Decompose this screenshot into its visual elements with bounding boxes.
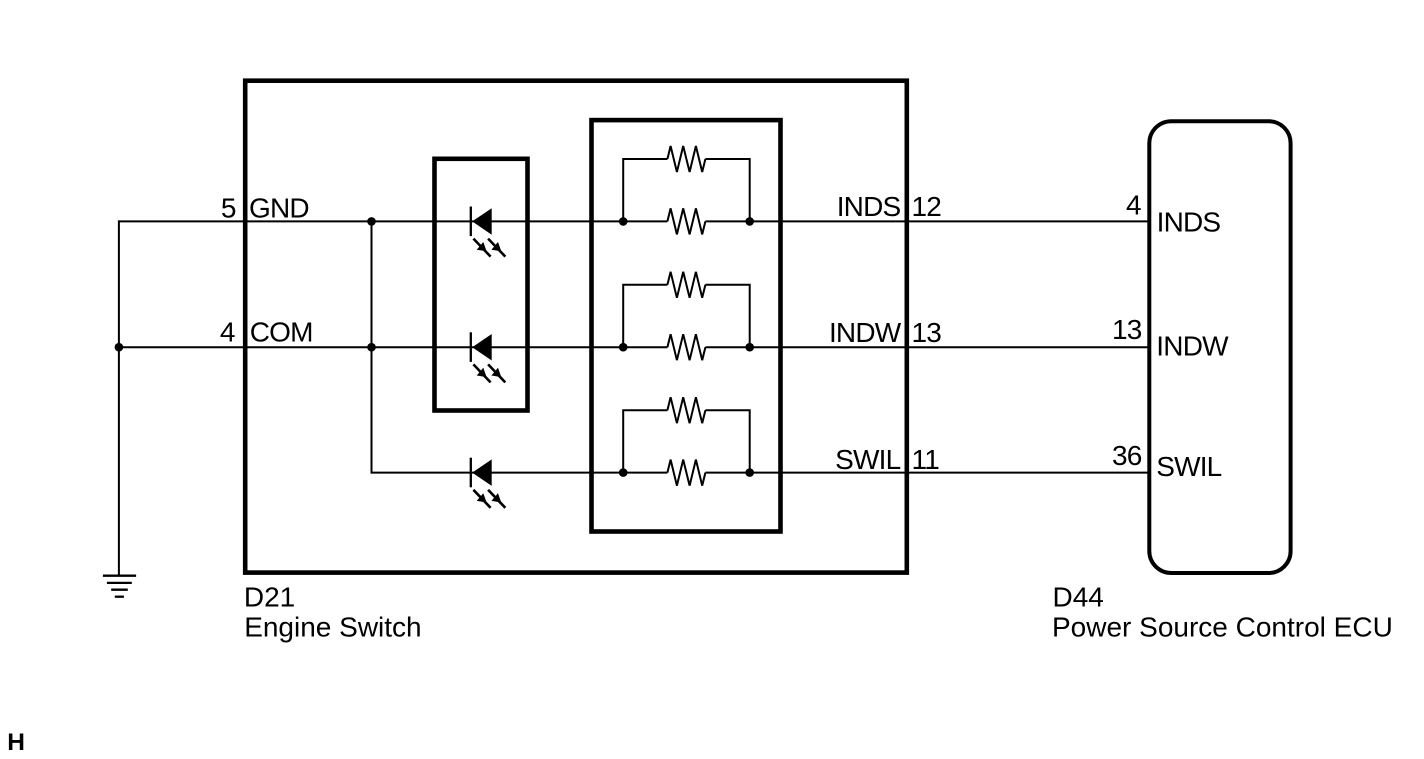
LED D1 emission arrow 2	[488, 239, 505, 257]
R2 upper resistor	[667, 272, 705, 298]
R2 lower resistor	[667, 334, 705, 360]
svg-text:11: 11	[912, 444, 940, 475]
svg-text:36: 36	[1112, 440, 1142, 471]
svg-text:4: 4	[1126, 190, 1141, 221]
wire: COM net horizontal (pin 4 row)	[119, 346, 668, 348]
LED D2 cathode bar	[470, 332, 472, 362]
R1 bypass loop wire	[623, 159, 667, 221]
R2 left junction	[619, 343, 628, 352]
svg-text:D21: D21	[244, 582, 295, 613]
LED D2 emission arrow 1	[473, 364, 490, 382]
R1 lower resistor	[667, 208, 705, 234]
connector D44 Power Source Control ECU	[1149, 121, 1290, 573]
LED D2 emission arrow 2	[488, 364, 505, 382]
LED D3 emission arrow 1	[473, 490, 490, 508]
R1 right junction	[745, 217, 754, 226]
R3 left junction	[619, 468, 628, 477]
svg-text:GND: GND	[249, 192, 309, 223]
node: GND row tee on common vertical	[367, 217, 376, 226]
svg-text:INDW: INDW	[829, 317, 902, 348]
inner box: resistor block	[592, 120, 781, 531]
svg-text:D44: D44	[1053, 582, 1104, 613]
wire: GND net horizontal (pin 5 row)	[119, 220, 668, 222]
svg-text:COM: COM	[250, 317, 313, 348]
svg-text:INDS: INDS	[1157, 207, 1221, 238]
svg-text:5: 5	[221, 192, 236, 223]
R1 upper resistor	[667, 146, 705, 172]
R1 left junction	[619, 217, 628, 226]
svg-text:INDW: INDW	[1156, 331, 1229, 362]
svg-text:13: 13	[1112, 314, 1142, 345]
svg-text:INDS: INDS	[837, 191, 901, 222]
node: COM row tee on common vertical	[367, 343, 376, 352]
inner box: illumination LED block	[435, 159, 528, 411]
wire: common vertical inside switch	[371, 220, 373, 473]
LED D1 cathode bar	[470, 207, 472, 237]
R3 right junction	[745, 468, 754, 477]
LED D3 cathode bar	[470, 458, 472, 488]
svg-text:4: 4	[220, 317, 235, 348]
svg-text:Power Source Control ECU: Power Source Control ECU	[1052, 611, 1393, 642]
LED D2 triangle (anode, pointing left)	[472, 334, 492, 361]
LED D3 triangle (anode, pointing left)	[472, 459, 492, 486]
wire: left vertical to ground	[118, 220, 120, 575]
LED D1 emission arrow 1	[473, 239, 490, 257]
component box D21 Engine Switch	[245, 81, 907, 573]
R3 upper resistor	[667, 397, 705, 423]
svg-text:SWIL: SWIL	[1156, 451, 1221, 482]
svg-text:Engine Switch: Engine Switch	[244, 611, 421, 642]
svg-text:12: 12	[912, 191, 942, 222]
svg-text:13: 13	[912, 317, 942, 348]
node: GND/COM tee on left vertical	[115, 343, 124, 352]
R3 lower resistor	[667, 460, 705, 486]
LED D3 emission arrow 2	[488, 490, 505, 508]
R2 bypass loop wire	[623, 285, 667, 347]
R2 right junction	[745, 343, 754, 352]
svg-text:H: H	[7, 729, 25, 756]
R3 bypass loop wire	[623, 410, 667, 472]
LED D1 triangle (anode, pointing left)	[472, 208, 492, 235]
ground symbol	[103, 575, 136, 577]
svg-text:SWIL: SWIL	[835, 444, 900, 475]
wire: SWIL row horizontal	[372, 472, 668, 474]
